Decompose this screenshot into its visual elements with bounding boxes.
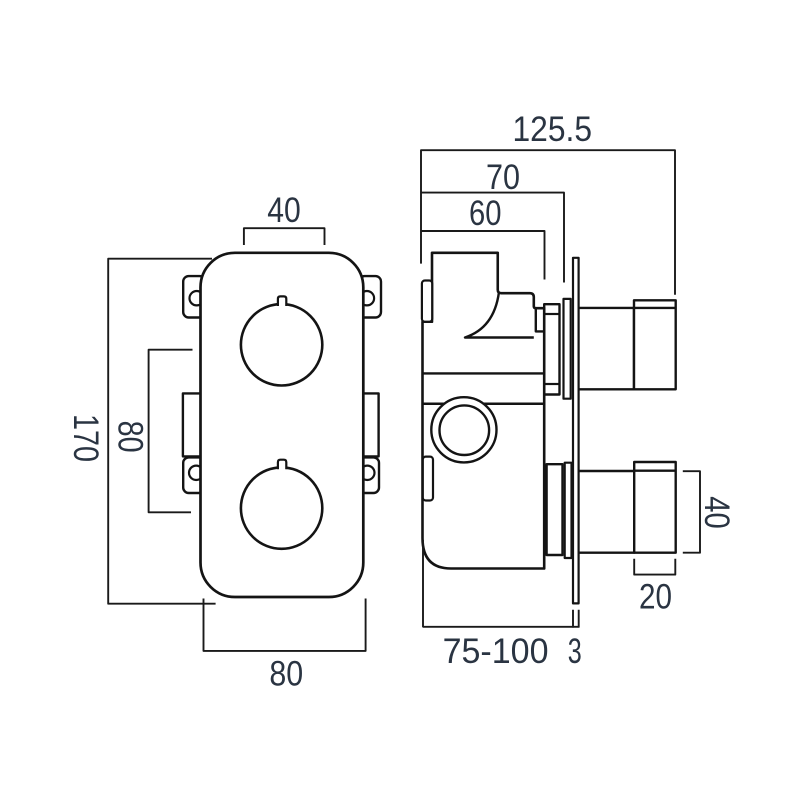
lower-right mounting ear bbox=[359, 457, 380, 493]
dim 40 right bracket bbox=[683, 471, 700, 553]
upper pipe fitting bbox=[634, 300, 676, 389]
top-right mounting ear bbox=[359, 276, 381, 317]
wall thickness ticks bbox=[573, 610, 579, 628]
svg-text:125.5: 125.5 bbox=[513, 110, 593, 149]
upper knob notch bbox=[278, 296, 286, 307]
side port outer circle bbox=[431, 397, 496, 462]
top-right ear hole bbox=[360, 291, 374, 305]
lower knob notch bbox=[278, 460, 286, 471]
svg-text:80: 80 bbox=[269, 655, 303, 694]
side port inner circle bbox=[440, 405, 490, 455]
svg-text:40: 40 bbox=[697, 496, 736, 529]
dim 70 bracket bbox=[421, 193, 564, 283]
lower-left mounting ear bbox=[183, 457, 204, 493]
upper front tab bbox=[422, 281, 432, 322]
lower knob bbox=[241, 467, 322, 548]
dim 80 vertical bracket bbox=[149, 350, 193, 513]
svg-text:3: 3 bbox=[568, 632, 582, 671]
lower supply pipe bbox=[574, 471, 634, 553]
upper knob bbox=[241, 304, 322, 385]
svg-text:170: 170 bbox=[66, 414, 105, 462]
top-left mounting ear bbox=[183, 276, 205, 317]
dim 60 bracket bbox=[421, 231, 545, 280]
upper trim flange bbox=[564, 299, 571, 399]
mid-right bracket rectangle bbox=[363, 393, 379, 456]
dim 125.5 bracket bbox=[421, 150, 675, 295]
lower-left ear hole bbox=[189, 466, 203, 480]
lower fitting collar line bbox=[634, 470, 676, 472]
lower-right ear hole bbox=[360, 466, 374, 480]
svg-text:20: 20 bbox=[639, 578, 672, 617]
lower trim flange bbox=[565, 463, 572, 558]
mid-left bracket rectangle bbox=[183, 393, 201, 456]
lower pipe fitting bbox=[634, 462, 676, 553]
cartridge collar lines bbox=[544, 313, 559, 315]
dim 80 bottom bracket bbox=[204, 599, 366, 651]
wall plate bbox=[573, 258, 579, 604]
lower outlet cylinder bbox=[547, 464, 563, 555]
valve stem neck bbox=[536, 308, 544, 331]
svg-text:40: 40 bbox=[267, 191, 301, 230]
svg-text:80: 80 bbox=[110, 421, 149, 453]
lower front tab bbox=[423, 457, 433, 501]
dim 20 bracket bbox=[634, 559, 675, 575]
dim 75-100 line bbox=[423, 540, 579, 627]
svg-text:60: 60 bbox=[469, 194, 502, 233]
upper supply pipe bbox=[574, 308, 634, 389]
body band lines bbox=[424, 372, 545, 374]
svg-text:70: 70 bbox=[486, 158, 520, 197]
valve main body bbox=[423, 253, 545, 569]
upper cartridge body bbox=[544, 304, 559, 394]
upper fitting collar line bbox=[634, 307, 676, 309]
dim 40 top bracket bbox=[244, 228, 325, 245]
dim 170 bracket bbox=[108, 259, 215, 604]
face plate bbox=[201, 253, 364, 597]
top-left ear hole bbox=[190, 291, 204, 305]
svg-text:75-100: 75-100 bbox=[443, 632, 549, 671]
handle profile sweep bbox=[465, 293, 534, 338]
